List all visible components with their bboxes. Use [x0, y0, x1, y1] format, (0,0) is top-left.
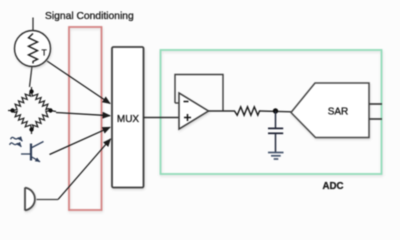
svg-text:MUX: MUX — [117, 114, 140, 125]
wire: node to capacitor — [275, 111, 277, 128]
thermistor bottom lead — [30, 66, 33, 87]
bridge resistor edge bottom-left — [13, 111, 32, 130]
wire: arrow phototransistor to MUX — [50, 127, 111, 154]
bridge top stub — [31, 87, 33, 92]
node junction dot — [273, 108, 278, 113]
phototransistor bar — [30, 144, 32, 161]
thermistor top lead — [32, 18, 34, 31]
ground symbol — [268, 153, 284, 160]
wire: arrow microphone to MUX — [58, 139, 111, 200]
wire: op-amp output to resistor — [209, 110, 236, 112]
resistor R1 — [235, 107, 261, 115]
light arrow 2 — [10, 143, 22, 147]
green ADC zone rectangle — [161, 50, 382, 174]
bridge resistor edge right-bottom — [32, 111, 51, 130]
op-amp U2 triangle — [179, 93, 209, 129]
bridge resistor edge top-right — [32, 92, 51, 111]
bridge right stub — [51, 111, 57, 112]
MUX block U1 — [112, 47, 144, 188]
wire: capacitor to ground — [275, 133, 277, 152]
svg-text:SAR: SAR — [328, 107, 349, 118]
SAR block U3 — [291, 83, 369, 138]
wire: resistor to SAR — [261, 110, 292, 113]
bridge node top — [29, 89, 33, 93]
capacitor C1 — [268, 128, 283, 133]
phototransistor Q1 — [10, 137, 44, 161]
phototransistor collector lead — [31, 142, 44, 149]
bridge resistor edge left-top — [13, 92, 32, 111]
phototransistor base lead — [21, 153, 31, 155]
wire: arrow bridge to MUX — [56, 113, 110, 116]
op-amp minus sign — [184, 101, 189, 103]
phototransistor emitter lead with arrow — [31, 157, 40, 162]
bridge node left — [10, 108, 14, 112]
svg-text:ADC: ADC — [323, 181, 344, 192]
bridge node bottom — [29, 127, 33, 131]
bridge sensor B1 — [8, 87, 56, 134]
op-amp plus sign — [184, 114, 191, 121]
SAR output stub 2 — [369, 118, 382, 120]
bridge left stub — [8, 110, 13, 112]
wire: MUX output to op-amp — [144, 117, 180, 119]
bridge bottom stub — [31, 130, 33, 135]
thermistor zigzag element — [29, 34, 38, 64]
op-amp feedback loop — [175, 75, 223, 112]
microphone M1 body — [25, 188, 35, 211]
svg-text:T: T — [42, 48, 47, 58]
bridge node right — [48, 108, 52, 112]
light arrow 1 — [11, 137, 23, 141]
SAR output stub 1 — [369, 103, 382, 105]
red signal-conditioning zone rectangle — [69, 27, 102, 210]
svg-text:Signal Conditioning: Signal Conditioning — [45, 11, 134, 22]
thermistor RT1 body — [15, 31, 51, 67]
feedback stub to inverting input — [175, 102, 179, 104]
microphone lead — [37, 199, 59, 201]
wire: arrow thermistor to MUX — [47, 61, 110, 104]
